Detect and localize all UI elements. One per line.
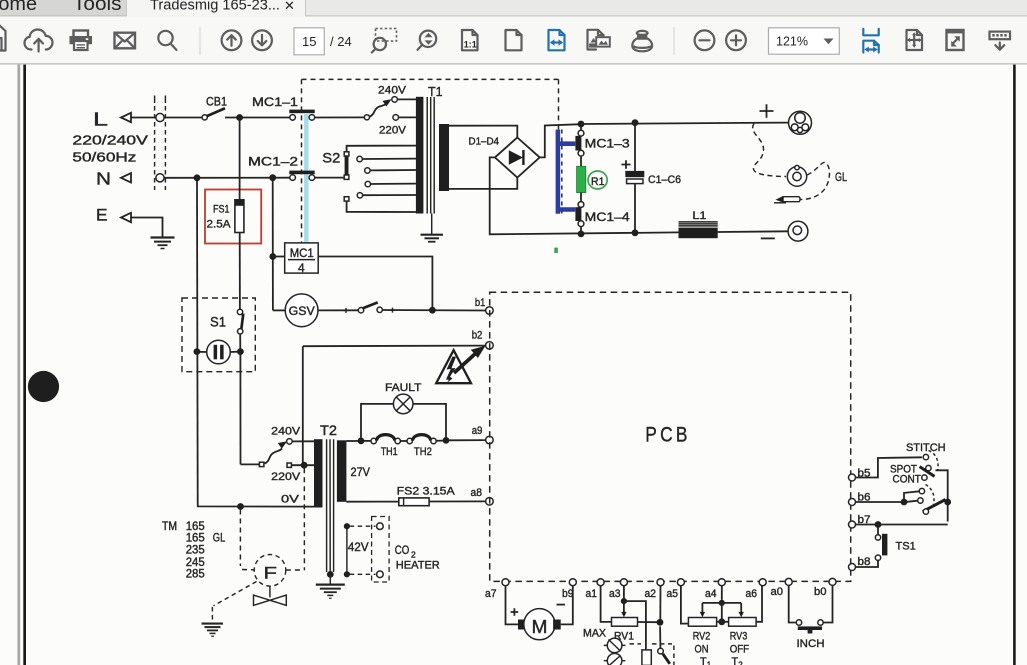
svg-text:C1–C6: C1–C6 xyxy=(648,174,681,186)
save icon (clipped at left edge) xyxy=(0,25,6,51)
wire connector to CB1 xyxy=(164,117,202,119)
wire N rail xyxy=(164,177,290,179)
wire MC1-coil-left down to GSV xyxy=(273,309,285,311)
svg-text:OFF: OFF xyxy=(730,643,750,655)
node b7 xyxy=(849,521,856,528)
wire MC1-3 to R1 xyxy=(580,156,582,166)
wire S1 switch down xyxy=(239,334,241,349)
separator xyxy=(674,27,675,55)
svg-text:CB1: CB1 xyxy=(206,97,227,109)
capacitor C1-C6 positive sign xyxy=(622,160,631,168)
wire b5 to stitch contact xyxy=(856,457,923,477)
node b2 xyxy=(486,342,494,350)
junction capacitor top xyxy=(632,119,639,126)
S2 bottom contact square xyxy=(344,197,349,201)
ground T1 xyxy=(421,235,444,242)
page with image icon xyxy=(588,30,610,50)
svg-text:TH2: TH2 xyxy=(414,446,432,458)
wire fuse to S1 xyxy=(239,233,241,310)
junction T2 core ground xyxy=(327,571,334,578)
svg-text:GSV: GSV xyxy=(289,306,315,318)
wire pole2 to b7 xyxy=(856,524,948,526)
wire bridge - output down to negative rail xyxy=(490,157,679,234)
wire MC1-1 to voltage selector xyxy=(315,116,365,118)
ink bottle icon xyxy=(632,31,652,51)
svg-text:STITCH: STITCH xyxy=(906,442,946,454)
svg-text:a2: a2 xyxy=(645,588,657,600)
node b9 xyxy=(569,579,576,586)
svg-text:MC1–2: MC1–2 xyxy=(248,155,298,169)
share/cloud upload icon xyxy=(25,30,53,50)
dashed link 220V junction down to fan xyxy=(286,468,305,570)
svg-text:PCB: PCB xyxy=(645,424,691,447)
svg-text:L1: L1 xyxy=(692,210,706,222)
fuse FS1 annotation red box xyxy=(205,190,261,244)
svg-text:2: 2 xyxy=(738,661,743,665)
diode symbol inside bridge xyxy=(509,150,523,165)
junction MC1 coil left xyxy=(269,253,276,260)
knob ticks xyxy=(604,640,626,665)
svg-text:RV3: RV3 xyxy=(730,631,748,643)
marquee zoom icon xyxy=(372,29,397,53)
svg-text:INCH: INCH xyxy=(797,638,825,650)
dashed contactor linkage box top xyxy=(302,79,559,129)
fault lamp circuit loop xyxy=(361,404,446,438)
motor right terminal xyxy=(553,620,561,630)
selector lever upper xyxy=(920,467,935,477)
svg-text:N: N xyxy=(96,168,111,188)
svg-text:E: E xyxy=(96,206,108,224)
wire TS1 to b8 xyxy=(856,560,879,567)
neon lamp S1 xyxy=(207,340,231,364)
node a2 xyxy=(657,579,664,586)
wire 0V rail xyxy=(198,504,314,507)
svg-text:D1–D4: D1–D4 xyxy=(469,136,500,148)
transformer T2 core xyxy=(327,439,334,574)
negative output terminal xyxy=(788,221,808,241)
bridge rectifier D1-D4 xyxy=(495,138,540,178)
wire 220V tap to junction xyxy=(291,464,314,466)
svg-text:a3: a3 xyxy=(609,588,621,600)
42V winding wire xyxy=(346,526,348,574)
junction fault loop right xyxy=(443,437,450,444)
svg-text:TM: TM xyxy=(162,521,177,533)
tap circle 240V T2 xyxy=(287,439,293,445)
wire MC1 coil to GSV switch branch xyxy=(318,257,432,308)
positive rail wire xyxy=(581,123,788,124)
node a4 xyxy=(718,579,725,586)
lightning bolt inside triangle xyxy=(446,357,456,383)
cyan highlight annotation line xyxy=(304,114,308,243)
svg-text:Tools: Tools xyxy=(73,0,122,15)
junction pole2 pivot xyxy=(944,499,951,506)
potentiometer RV3 body xyxy=(729,618,757,627)
gas solenoid valve GSV xyxy=(285,294,318,327)
presenter mode icon xyxy=(990,32,1011,50)
wire S2 top tap xyxy=(347,146,416,152)
ground E xyxy=(151,238,175,249)
svg-text:MC1: MC1 xyxy=(290,246,314,260)
wire S2 c1 to T1 xyxy=(362,158,416,160)
selector wander contact xyxy=(364,115,369,120)
fit page icon xyxy=(907,30,923,50)
wire a5 to RV2 xyxy=(681,586,689,624)
label + motor xyxy=(511,608,519,616)
selector pole2 contact a xyxy=(918,498,923,503)
selector lever lower xyxy=(923,500,946,512)
wire rail to capacitor xyxy=(634,123,636,171)
contactor contact MC1-4 xyxy=(578,202,584,208)
svg-text:285: 285 xyxy=(186,568,205,580)
junction 42V bottom xyxy=(344,571,350,577)
wire a2 junction down to trigger switch xyxy=(659,626,661,648)
node b1 xyxy=(486,307,494,315)
TS1 bar xyxy=(882,534,887,556)
svg-text:a8: a8 xyxy=(471,487,483,499)
wire a4 center down xyxy=(721,603,723,619)
wire a3 to wiper xyxy=(623,586,625,598)
wire S2 c2 to T1 xyxy=(370,169,416,171)
selector contact cont xyxy=(922,475,927,480)
selector pole2 contact b xyxy=(919,488,924,493)
print icon xyxy=(70,31,93,51)
node a9 xyxy=(486,436,494,444)
wire T1 secondary top to bridge xyxy=(449,126,517,138)
contactor contact MC1-1 xyxy=(289,110,314,114)
RV1 wiper arrow xyxy=(623,601,625,613)
inch switch contact left xyxy=(796,620,801,625)
svg-text:MC1–1: MC1–1 xyxy=(252,95,298,109)
wire RV3 to a6 xyxy=(756,586,762,622)
junction capacitor bottom xyxy=(632,229,639,236)
thermal switch TH1 xyxy=(371,438,376,443)
wire S2 c4 to T1 xyxy=(363,194,416,196)
zoom in icon xyxy=(726,30,746,50)
wire T1 secondary bottom to bridge xyxy=(449,178,517,189)
svg-text:GL: GL xyxy=(835,172,847,184)
wire L to connector xyxy=(131,117,156,119)
wire S1 to T2 selector xyxy=(239,355,241,465)
dashed selector arc lower xyxy=(926,485,935,508)
junction GSV/MC1coil xyxy=(429,307,436,314)
find icon xyxy=(158,31,176,50)
svg-text:TS1: TS1 xyxy=(896,541,916,553)
node b8 xyxy=(849,564,856,571)
svg-text:a4: a4 xyxy=(705,588,717,600)
junction MC1-4 bottom xyxy=(578,231,585,238)
svg-text:CONT: CONT xyxy=(893,473,922,485)
heater terminal top xyxy=(377,523,384,530)
svg-text:b2: b2 xyxy=(472,329,483,341)
svg-text:S2: S2 xyxy=(322,150,340,165)
RV1 knob circle 1 xyxy=(607,638,622,653)
contactor coil box MC1/4 xyxy=(285,243,319,273)
selector contact spot xyxy=(926,465,931,470)
svg-text:b1: b1 xyxy=(475,297,486,309)
tap circle 240V T1 xyxy=(392,97,398,103)
dashed linkage MC1-3/4 xyxy=(561,130,563,214)
svg-text:121%: 121% xyxy=(776,35,808,49)
svg-text:MAX: MAX xyxy=(583,628,606,640)
wire motor to b9 xyxy=(561,586,573,625)
arrowhead 240V T2 xyxy=(278,441,287,448)
svg-text:/ 24: / 24 xyxy=(330,34,352,49)
wire core to ground xyxy=(329,574,331,584)
transformer T2 primary winding xyxy=(314,439,323,507)
wire switch to b1 xyxy=(382,309,485,312)
junction N/S1-left xyxy=(194,174,201,181)
svg-text:a0: a0 xyxy=(771,586,784,598)
warning arrow to b2 xyxy=(454,354,476,374)
label - motor xyxy=(557,604,566,606)
node a3 xyxy=(620,579,627,586)
node b0 xyxy=(829,578,836,585)
S2 contact 4 xyxy=(357,193,362,198)
svg-text:27V: 27V xyxy=(351,465,371,479)
wire E to ground xyxy=(131,218,163,238)
svg-text:MC1–3: MC1–3 xyxy=(585,136,631,150)
transformer T1 primary winding xyxy=(416,97,424,214)
node a0 xyxy=(785,578,792,585)
blue annotation bracket xyxy=(558,130,575,214)
hole punch black dot xyxy=(28,371,59,402)
wire N branch down (left side of S1) xyxy=(196,181,199,504)
fan motor F dashed circle xyxy=(254,555,286,587)
switch S1 dashed box xyxy=(182,298,255,372)
wire 220V junction up to b2 xyxy=(302,346,304,462)
active document tab xyxy=(126,0,306,17)
svg-text:4: 4 xyxy=(298,261,305,275)
thermal switch TH2 xyxy=(407,438,412,443)
junction lamp left xyxy=(194,348,201,355)
switch S2 wiper bar xyxy=(345,156,349,176)
node b6 xyxy=(849,499,856,506)
junction 220V/b2 xyxy=(301,462,308,469)
tab bar background xyxy=(0,0,1027,17)
dashed 42V to heater top xyxy=(350,525,376,527)
svg-text:42V: 42V xyxy=(348,540,369,554)
switch S1 contacts xyxy=(237,309,242,314)
svg-text:MC1–4: MC1–4 xyxy=(585,210,631,224)
torch switch TS1 contact top xyxy=(875,535,880,540)
RV1 knob circle 2 xyxy=(607,653,622,665)
svg-text:TH1: TH1 xyxy=(381,446,398,458)
heater terminal bottom xyxy=(377,571,384,578)
scan page left gray edge line xyxy=(17,65,20,665)
wire L1 to negative terminal xyxy=(718,230,789,233)
wire b6 branches xyxy=(856,501,902,503)
svg-text:FS2 3.15A: FS2 3.15A xyxy=(397,485,456,497)
svg-text:FAULT: FAULT xyxy=(385,382,422,394)
dashed selector arc upper xyxy=(929,451,939,471)
separator xyxy=(200,27,201,55)
label + output xyxy=(760,104,774,117)
zoom out icon xyxy=(695,30,715,50)
svg-text:GL: GL xyxy=(213,533,226,545)
loupe zoom icon xyxy=(418,31,437,50)
svg-text:a6: a6 xyxy=(746,588,758,600)
node a1 xyxy=(597,579,604,586)
full screen icon xyxy=(947,30,964,50)
wire 27V bottom to FS2 xyxy=(346,501,398,503)
junction b7/TS1 xyxy=(875,521,882,528)
svg-text:240V: 240V xyxy=(378,84,407,96)
svg-text:50/60Hz: 50/60Hz xyxy=(72,151,136,165)
wire junction down to TS1 xyxy=(877,528,879,535)
S2 contact 1 xyxy=(357,156,362,161)
svg-text:165: 165 xyxy=(186,533,205,545)
capacitor C1-C6 plates xyxy=(625,171,644,177)
svg-text:220/240V: 220/240V xyxy=(72,134,148,148)
svg-text:ON: ON xyxy=(695,643,709,655)
wire MC1-4 to negative rail xyxy=(580,227,582,234)
wire junction to fuse FS1 xyxy=(239,118,241,200)
R1 green circle annotation xyxy=(588,171,607,189)
dashed linkage MC1 vertical xyxy=(301,79,303,242)
selector flying lead to T2 240V tap xyxy=(265,449,283,464)
svg-text:245: 245 xyxy=(186,557,205,569)
wire FS2 to a8 xyxy=(429,500,486,502)
S2 contact 3 xyxy=(365,181,370,186)
svg-text:0V: 0V xyxy=(281,494,300,506)
wire to a9 xyxy=(449,439,486,441)
junction b6 xyxy=(901,499,908,506)
wire S2 bottom tap xyxy=(347,201,416,212)
selector pole2 contact c xyxy=(923,509,928,514)
wire to TH1 xyxy=(364,440,371,442)
svg-text:L: L xyxy=(93,109,108,130)
connector pin L xyxy=(156,113,164,121)
wire selector pivot to pole2 xyxy=(936,470,948,521)
S2 contact 2 xyxy=(365,168,370,173)
junction RV2/RV3 xyxy=(718,618,725,625)
trigger component body xyxy=(642,650,651,665)
wire 240V tap to T1 xyxy=(397,98,416,100)
toolbar background xyxy=(0,17,1027,65)
ground T2 xyxy=(316,585,345,599)
selector flying lead to 240V tap xyxy=(370,104,387,117)
junction L/FS1 xyxy=(236,114,243,121)
svg-text:M: M xyxy=(532,616,548,637)
wire 220V tap to T1 xyxy=(399,116,417,118)
svg-text:b0: b0 xyxy=(814,586,827,598)
positive output torch connector xyxy=(789,111,812,134)
zoom level box xyxy=(769,28,840,54)
svg-text:15: 15 xyxy=(302,34,316,49)
inch pushbutton bar xyxy=(798,626,822,630)
svg-text:S1: S1 xyxy=(210,315,226,330)
wire MC1-2 to S2 xyxy=(315,177,345,179)
svg-text:165: 165 xyxy=(186,521,205,533)
inductor L1 xyxy=(679,222,718,226)
next page icon xyxy=(252,30,272,50)
torch switch TS1 contact bottom xyxy=(875,555,880,560)
wire 27V top to fault loop junction xyxy=(346,440,358,442)
dashed link 0V junction down to fan xyxy=(240,510,253,570)
trigger switch contact xyxy=(658,648,664,654)
wire bridge + output up to positive rail xyxy=(540,124,578,157)
svg-text:R1: R1 xyxy=(591,176,605,188)
junction fault loop left xyxy=(358,438,365,445)
CO2 heater dashed box xyxy=(372,517,390,583)
dashed mech link trigger xyxy=(630,644,674,665)
transformer T1 secondary winding xyxy=(439,124,449,191)
wire a7 to motor xyxy=(506,586,519,625)
contactor contact MC1-3 xyxy=(578,130,584,136)
wire a4 down xyxy=(721,586,723,600)
svg-text:HEATER: HEATER xyxy=(396,559,440,571)
high voltage warning triangle xyxy=(436,350,471,383)
wire S2 c3 to T1 xyxy=(371,183,417,185)
scan page right black edge line xyxy=(1013,65,1016,665)
wire CB1 to junction xyxy=(225,117,290,119)
dashed 42V to heater bottom xyxy=(350,573,376,575)
previous page icon xyxy=(222,30,242,50)
inch switch contact right xyxy=(818,620,823,625)
fuse FS2 xyxy=(399,498,429,506)
scan page left black edge line xyxy=(23,65,26,665)
wire rail to MC1-3 xyxy=(580,127,582,130)
wire T1 core to ground xyxy=(431,214,433,235)
dashed fan to valve stem xyxy=(269,586,271,597)
solder tick xyxy=(344,308,349,313)
terminal triangle E xyxy=(121,213,131,222)
motor left terminal xyxy=(518,620,526,630)
node a6 xyxy=(759,579,766,586)
label - output xyxy=(761,237,775,239)
svg-text:a1: a1 xyxy=(586,588,598,600)
wire RV1 right to a2 xyxy=(638,621,658,623)
wire b6 up branch xyxy=(904,491,919,502)
svg-text:CO: CO xyxy=(395,545,410,557)
svg-text:FS1: FS1 xyxy=(213,203,230,215)
positive rail junction at MC1-3 xyxy=(578,121,585,128)
dashed link fan to earth xyxy=(212,582,256,621)
tap contact 220V T2 xyxy=(287,463,291,467)
potentiometer RV2 body xyxy=(688,618,716,627)
wire 240V tap to T2 xyxy=(292,440,314,442)
junction lamp right xyxy=(237,348,244,355)
junction a4 xyxy=(719,600,725,606)
wire TH2 to fault loop junction xyxy=(436,440,443,442)
junction a3 branch xyxy=(621,598,627,604)
arrowhead 240V xyxy=(383,99,392,106)
junction N/MC1-4coil xyxy=(269,174,276,181)
wire inch to b0 xyxy=(823,585,832,622)
svg-text:240V: 240V xyxy=(271,425,301,437)
torch trigger connector GL xyxy=(787,165,806,186)
scrolling mode icon (blue, active) xyxy=(863,29,878,53)
svg-text:b9: b9 xyxy=(562,588,574,600)
wire a0 to inch switch xyxy=(789,585,796,622)
svg-text:a7: a7 xyxy=(485,588,497,600)
junction 0V dashed drop xyxy=(237,503,244,510)
svg-text:235: 235 xyxy=(186,545,205,557)
wire N junction down to MC1 coil xyxy=(272,181,274,311)
email icon xyxy=(115,33,136,49)
node a8 xyxy=(486,498,494,506)
fit width icon (blue, active) xyxy=(549,30,565,50)
resistor R1 (green highlighted) xyxy=(577,166,586,192)
gas valve bowtie xyxy=(254,595,287,605)
contactor contact MC1-2 xyxy=(289,171,314,175)
svg-text:Home: Home xyxy=(0,0,37,15)
svg-text:1:1: 1:1 xyxy=(464,40,477,50)
wire b2 horizontal xyxy=(303,345,486,348)
selector contact stitch xyxy=(923,454,928,459)
svg-text:T2: T2 xyxy=(320,423,337,438)
PCB dashed outline xyxy=(490,292,851,581)
